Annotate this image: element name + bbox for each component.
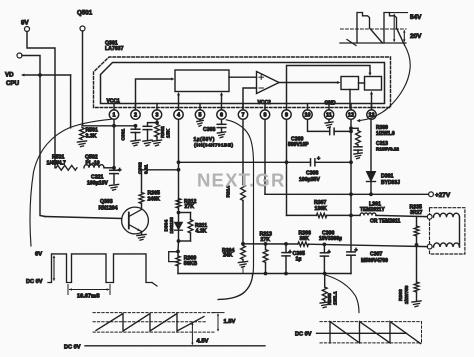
wire Q303 base line	[45, 217, 122, 219]
yoke coil bottom	[434, 243, 460, 247]
pin 5	[199, 104, 201, 110]
wire pin12 down	[350, 119, 352, 252]
ground pin5	[199, 119, 201, 121]
wire pin1 down	[113, 119, 115, 168]
ground R501	[77, 141, 86, 142]
wire pin8 VCC2 down	[264, 119, 266, 194]
resistor R314	[241, 185, 246, 201]
capacitor C306 18V3300u	[323, 244, 325, 252]
yoke coil right wire	[459, 217, 461, 247]
waveform ramp (pin6) with levels	[93, 312, 214, 314]
wire pin10 jog	[308, 119, 330, 131]
trimmer R369 56KB	[169, 252, 178, 262]
ground Q303 emitter	[137, 234, 146, 235]
diode D301 BYD33J	[367, 172, 376, 182]
dimension 16.67mS	[67, 285, 69, 295]
ground C313	[354, 153, 362, 154]
wire output stage1 to stage2	[359, 82, 365, 84]
wire op-amp output to output stage 1	[279, 82, 337, 84]
pin 7	[242, 104, 244, 110]
wire pin13 up into output stage 2	[371, 94, 373, 108]
leader curve (drive waveform to pin 1)	[30, 119, 111, 246]
pin 1	[113, 104, 115, 110]
yoke coil top	[434, 213, 460, 217]
terminal (test point)	[17, 53, 22, 58]
wire output stage1 to pin12	[349, 90, 351, 109]
ground R304	[238, 261, 247, 262]
leader curve (flyback waveform to pin 12 node)	[360, 28, 411, 121]
wire L502 to pin1 node	[104, 167, 114, 169]
resistor R304 24K	[241, 242, 245, 246]
wire C308 line	[179, 161, 311, 163]
resistor R307 130K	[316, 213, 326, 217]
wire Q303 emitter to ground	[141, 232, 143, 235]
pin 4	[178, 104, 180, 110]
wire drive block to op-amp +	[229, 76, 257, 78]
IC U301 inner solid outline	[101, 63, 385, 104]
resistor R306 36K	[298, 242, 309, 246]
wire pin9 down	[286, 119, 288, 215]
capacitor C303 1u(50V)	[221, 119, 223, 124]
wire D304/R311 bottom	[179, 240, 191, 242]
op-amp U301a	[257, 72, 280, 94]
ground pin11	[328, 119, 330, 122]
yoke terminal bottom	[427, 244, 432, 249]
wire pin3 junction	[156, 119, 158, 122]
capacitor C313	[357, 145, 359, 147]
resistor R335	[416, 217, 418, 227]
ground C303	[217, 132, 225, 133]
capacitor C307 M500V4700	[347, 251, 355, 253]
resistor R313 27K	[265, 244, 267, 250]
inductor L301 TEM2011Y	[360, 213, 376, 216]
snubber R309 1/2W1.0	[351, 127, 358, 129]
scan noise overlay	[0, 0, 1, 1]
IC internal block (drive stage)	[175, 70, 229, 92]
wire R365 tap	[142, 169, 179, 171]
wire R369 to bottom rail	[177, 266, 179, 274]
waveform flyback pulses 54V/20V	[340, 42, 406, 44]
ground R305	[320, 302, 329, 303]
resistor R302	[155, 125, 160, 138]
IC U301 LA7837 outer dashed outline	[94, 57, 391, 108]
pin 9	[286, 104, 288, 110]
ground C302	[143, 140, 152, 141]
wire pin4 up into drive block	[178, 95, 180, 104]
capacitor C302 0.01	[143, 125, 152, 127]
pin 2	[135, 104, 137, 110]
resistor R531 1/4W4.7	[56, 165, 77, 170]
capacitor C305 1u	[285, 244, 287, 253]
leader curve (ramp waveform to pin 6 node)	[218, 120, 254, 300]
leader curve (C306 node to right sawtooth)	[326, 275, 360, 313]
waveform vertical drive pulses	[48, 254, 152, 283]
waveform yoke sawtooth (dashed box)	[320, 321, 422, 323]
terminal +27V	[429, 192, 434, 197]
resistor R303 1/2W750	[416, 245, 418, 282]
wire pin6 up into drive block	[221, 95, 223, 104]
wire pin13 down	[370, 119, 372, 171]
wire D304/R311 top	[179, 212, 191, 214]
pin 12	[350, 104, 352, 110]
leader curve (bottom rail to left sawtooth)	[219, 274, 253, 300]
wire pin9 feedback to output stage 2 top	[287, 66, 371, 104]
wire pin12 yoke line	[351, 214, 360, 216]
resistor R365 240K	[141, 170, 143, 193]
wire Q501 down to VCC1 node	[82, 31, 84, 126]
wire op-amp - input to pin7	[243, 88, 257, 108]
wire VD CPU with arrow	[24, 74, 71, 76]
waveform DC baseline left	[85, 345, 265, 347]
pin 3	[156, 104, 158, 110]
wire VCC1 node rail	[82, 125, 136, 127]
IC internal block (output stage 1)	[341, 77, 359, 90]
wire 9V to R531 rail	[27, 32, 55, 168]
capacitor C309 560V10P	[329, 128, 331, 134]
ground C301	[131, 140, 140, 141]
pin 10	[307, 104, 309, 110]
wire yoke bottom line	[309, 244, 428, 246]
capacitor C321 100u18V	[113, 168, 115, 171]
wire pin7 down	[242, 119, 244, 184]
pin 8	[264, 104, 266, 110]
ground R302	[152, 140, 161, 141]
pin 6	[221, 104, 223, 110]
resistor R312 27K	[176, 199, 181, 209]
ground C321	[109, 184, 118, 185]
wire pin2 to drive block	[136, 79, 171, 108]
wire test point down to Q303 base	[40, 75, 45, 217]
diode D304 1SS133	[178, 213, 180, 223]
wire +27V rail	[265, 193, 429, 195]
wire R307 line	[287, 214, 317, 216]
resistor R311 4.3K	[188, 220, 193, 234]
inductor L502 PL-10	[84, 165, 104, 168]
resistor R501 3.3K	[80, 128, 85, 140]
deflection yoke DY dashed box	[430, 208, 465, 254]
wire bottom rail	[178, 273, 351, 275]
yoke terminal top	[427, 214, 432, 219]
wire VD line down to leader arc	[70, 75, 72, 128]
wire test point to VD line	[22, 56, 40, 76]
capacitor C301	[135, 126, 137, 129]
pin 11	[328, 104, 330, 110]
IC internal block (output stage 2)	[365, 77, 382, 91]
resistor R305 1W1.1	[324, 274, 326, 288]
ground R303	[412, 301, 421, 302]
pin 13	[371, 104, 373, 110]
wire pin4 down	[178, 119, 180, 203]
capacitor C308 100u35V	[310, 159, 312, 166]
